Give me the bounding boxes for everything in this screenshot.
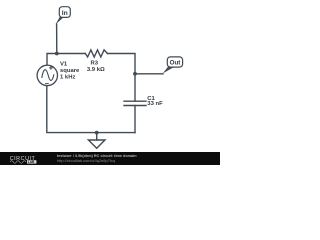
- svg-text:1 kHz: 1 kHz: [60, 75, 75, 81]
- svg-text:33 nF: 33 nF: [147, 101, 163, 107]
- svg-text:http://circuitlab.com/c/4q2e8p: http://circuitlab.com/c/4q2e8p7fcq: [57, 158, 115, 163]
- svg-text:3.9 kΩ: 3.9 kΩ: [87, 67, 105, 73]
- svg-text:R3: R3: [91, 61, 99, 67]
- svg-text:Out: Out: [170, 60, 181, 67]
- svg-text:square: square: [60, 68, 80, 74]
- svg-text:V1: V1: [60, 61, 68, 67]
- svg-text:In: In: [62, 10, 68, 17]
- svg-text:LAB: LAB: [28, 160, 35, 164]
